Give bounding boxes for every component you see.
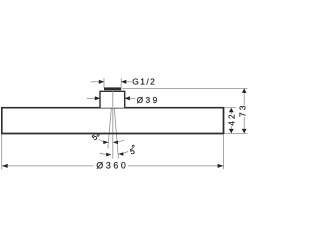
- lower-left arrowhead (points right at centerline): [106, 153, 111, 157]
- spray line left 5deg: [108, 91, 113, 149]
- lower-right arrowhead (points left at right spray line): [118, 152, 123, 156]
- Ø360 dimension line left segment: [2, 165, 94, 167]
- leader to lower-left arrowhead: [100, 153, 107, 154]
- centerline inside block: [112, 91, 114, 108]
- svg-text:Ø39: Ø39: [137, 95, 160, 105]
- 5deg label left (rotated glyph): [92, 135, 97, 141]
- Ø360 extension line right: [223, 135, 225, 170]
- leader from lower-right arrowhead to right 5deg label: [123, 151, 128, 153]
- G1/2 extension line right: [120, 78, 122, 87]
- shower head disk (side view): [2, 108, 224, 134]
- leader from left 5deg label: [99, 139, 104, 142]
- svg-text:G1/2: G1/2: [132, 77, 156, 87]
- connector block Ø39: [100, 91, 125, 107]
- Ø360 dimension line right segment: [128, 165, 224, 167]
- Ø39 left arrow leader: [87, 97, 96, 99]
- svg-text:Ø360: Ø360: [96, 161, 128, 171]
- Ø39 left arrowhead: [95, 96, 100, 100]
- dimension line 42: [230, 108, 232, 114]
- upper-right arrowhead (points left at centerline): [113, 141, 118, 145]
- G1/2 extension line left: [103, 78, 105, 87]
- Ø360 right arrowhead: [218, 164, 224, 168]
- Ø360 left arrowhead: [2, 164, 8, 168]
- G1/2 thread stub bar: [104, 87, 121, 90]
- 42 up arrowhead: [229, 108, 234, 112]
- G1/2 left arrow leader: [91, 81, 100, 83]
- spray line right 5deg: [113, 91, 119, 159]
- disk outline over spray lines: [2, 108, 224, 134]
- degree mark of left 5deg label: [97, 134, 99, 136]
- extension line from thread bar top (for 73): [122, 87, 247, 89]
- upper-left arrowhead (points right at left spray line): [103, 141, 108, 145]
- degree mark of right 5deg label: [132, 145, 134, 147]
- svg-text:73: 73: [238, 103, 248, 117]
- extension line from disk bottom right (for 42 and 73): [224, 132, 247, 134]
- centerline: [112, 91, 114, 159]
- extension line from disk top right (for 42): [225, 107, 237, 109]
- 42 down arrowhead: [229, 129, 234, 133]
- G1/2 left arrowhead: [99, 80, 104, 84]
- Ø360 extension line left: [1, 135, 3, 170]
- 73 down arrowhead: [242, 129, 247, 133]
- 5deg label right (rotated glyph): [130, 149, 135, 155]
- Ø39 right arrowhead: [125, 96, 130, 100]
- leader from upper-right arrowhead: [118, 140, 125, 142]
- Ø39 right arrow leader: [130, 97, 136, 99]
- G1/2 right arrowhead: [121, 80, 126, 84]
- svg-text:42: 42: [227, 112, 237, 126]
- dimension line 73: [243, 88, 245, 105]
- 73 up arrowhead: [242, 89, 247, 93]
- G1/2 right arrow leader: [126, 81, 132, 83]
